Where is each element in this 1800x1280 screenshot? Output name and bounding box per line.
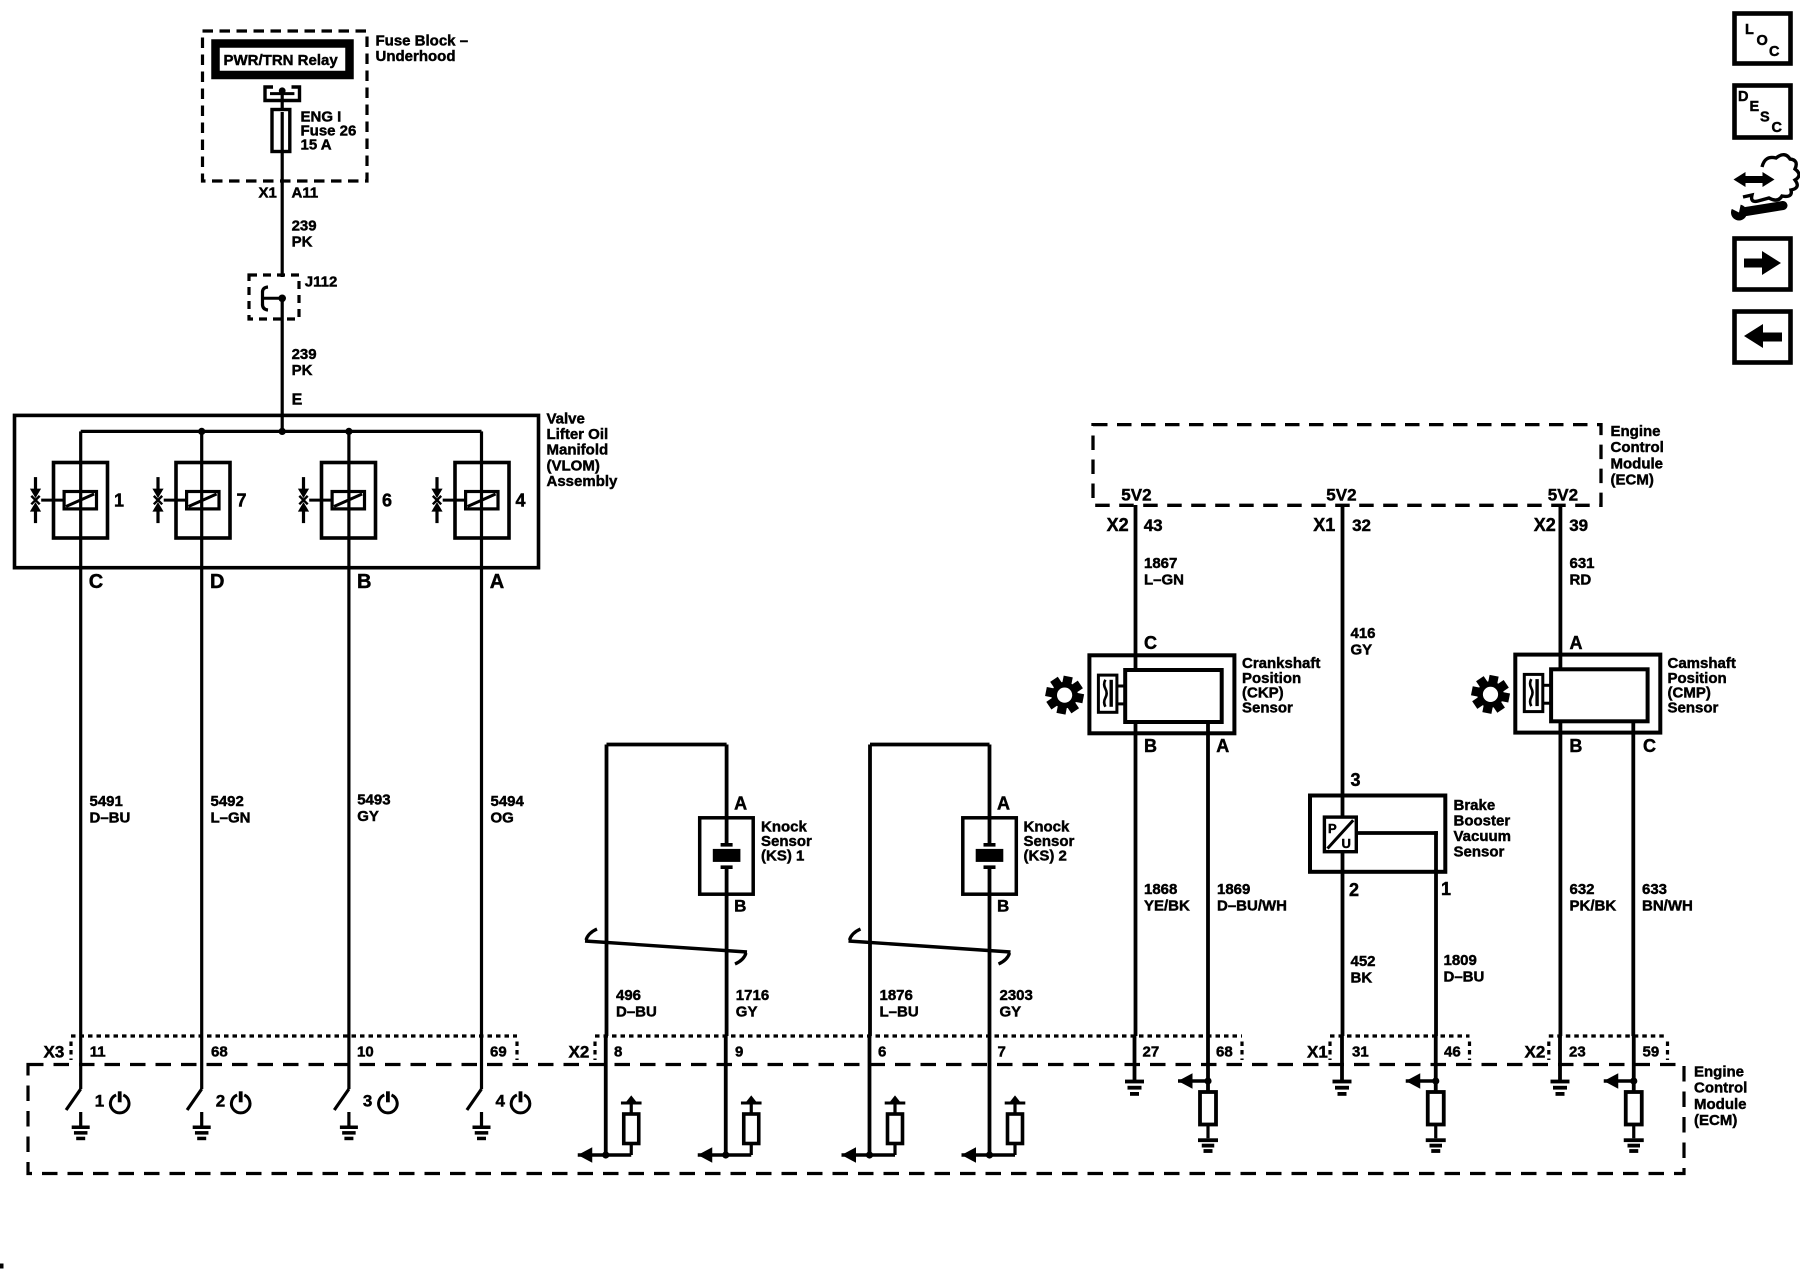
PWR/TRN Relay box xyxy=(216,44,350,76)
Crankshaft Position CKP Sensor xyxy=(1045,655,1234,733)
icon DESC button xyxy=(1735,86,1791,138)
svg-text:S: S xyxy=(1760,110,1770,126)
svg-text:X2: X2 xyxy=(1534,515,1556,535)
icon forward arrow button xyxy=(1735,239,1791,290)
svg-text:X3: X3 xyxy=(44,1043,65,1062)
wire 633 BN/WH (CMP C to ECM 59) xyxy=(1631,700,1635,1036)
svg-text:X2: X2 xyxy=(569,1043,590,1062)
twisted pair symbol KS1 xyxy=(585,941,747,952)
svg-text:L: L xyxy=(1745,22,1754,38)
svg-text:YE/BK: YE/BK xyxy=(1144,898,1190,915)
svg-text:A: A xyxy=(490,571,504,593)
ECM internal ground xyxy=(1125,1036,1144,1096)
svg-text:L–GN: L–GN xyxy=(1144,572,1184,589)
svg-text:1: 1 xyxy=(1441,879,1451,899)
svg-text:GY: GY xyxy=(357,808,379,825)
svg-text:A: A xyxy=(997,794,1010,814)
ECM input with signal arrow, resistor and ground xyxy=(1604,1036,1644,1153)
wire pin A into sensor xyxy=(988,745,992,844)
wire 632 PK/BK (CMP B to ECM 23) xyxy=(1559,670,1563,1036)
svg-text:Module: Module xyxy=(1611,455,1664,472)
icon LOC button xyxy=(1735,14,1791,64)
wire pin B out of sensor xyxy=(725,869,729,1036)
svg-text:5491: 5491 xyxy=(90,793,123,810)
svg-text:59: 59 xyxy=(1643,1044,1660,1061)
svg-text:46: 46 xyxy=(1444,1044,1461,1061)
svg-text:Sensor: Sensor xyxy=(1668,699,1719,716)
svg-text:GY: GY xyxy=(736,1004,758,1021)
ECM low-side driver 4 switch with ground and power icon xyxy=(467,1036,530,1140)
svg-text:7: 7 xyxy=(237,491,247,511)
relay output terminal symbol xyxy=(265,87,300,101)
svg-text:3: 3 xyxy=(1351,770,1361,790)
svg-text:X1: X1 xyxy=(1313,515,1335,535)
svg-text:31: 31 xyxy=(1352,1044,1369,1061)
wire to ECM (left leg) xyxy=(605,745,609,1037)
splice J112 dashed box xyxy=(249,275,299,319)
svg-text:15 A: 15 A xyxy=(301,136,332,153)
wire pin B out of sensor xyxy=(988,869,992,1036)
svg-text:1869: 1869 xyxy=(1217,881,1250,898)
svg-text:P: P xyxy=(1328,821,1337,836)
svg-text:(ECM): (ECM) xyxy=(1611,472,1654,489)
svg-text:PK/BK: PK/BK xyxy=(1570,898,1617,915)
VLOM solenoid valve 7 xyxy=(152,431,246,568)
svg-text:Underhood: Underhood xyxy=(376,48,456,65)
svg-text:X2: X2 xyxy=(1525,1043,1546,1062)
svg-text:B: B xyxy=(1144,736,1157,756)
svg-text:6: 6 xyxy=(878,1044,886,1061)
svg-text:A: A xyxy=(1570,633,1583,653)
svg-text:1876: 1876 xyxy=(880,987,913,1004)
ECM knock input pull-up resistor to 5V with signal arrow xyxy=(962,1036,1026,1163)
wire fuse to X1 A11 xyxy=(281,151,284,181)
svg-text:(VLOM): (VLOM) xyxy=(547,457,600,474)
icon schematic squiggle arrow with wrench xyxy=(1726,155,1799,221)
svg-text:BK: BK xyxy=(1351,970,1373,987)
wire 631 RD from ECM 39 to CMP xyxy=(1559,505,1563,670)
svg-text:2: 2 xyxy=(216,1092,225,1111)
wire E into bus xyxy=(281,415,284,431)
svg-text:A11: A11 xyxy=(292,185,319,202)
icon back arrow button xyxy=(1735,312,1791,363)
svg-text:D–BU/WH: D–BU/WH xyxy=(1217,898,1287,915)
wire 5491 D-BU xyxy=(79,568,82,1036)
svg-text:X2: X2 xyxy=(1107,515,1129,535)
svg-text:6: 6 xyxy=(382,491,392,511)
svg-text:B: B xyxy=(1569,736,1582,756)
svg-text:Booster: Booster xyxy=(1454,813,1511,830)
ECM internal ground xyxy=(1333,1036,1352,1096)
svg-text:X1: X1 xyxy=(1307,1043,1328,1062)
svg-text:68: 68 xyxy=(211,1044,228,1061)
svg-text:496: 496 xyxy=(616,987,641,1004)
wire 1867 L-GN from ECM 43 to CKP xyxy=(1134,505,1138,670)
fuse block underhood dashed box xyxy=(203,31,368,181)
svg-text:23: 23 xyxy=(1569,1044,1586,1061)
svg-text:D–BU: D–BU xyxy=(616,1004,657,1021)
ECM input with signal arrow, resistor and ground xyxy=(1178,1036,1218,1153)
svg-text:5494: 5494 xyxy=(491,793,525,810)
svg-text:PK: PK xyxy=(292,362,313,379)
svg-text:632: 632 xyxy=(1570,881,1595,898)
ECM connector dotted lines xyxy=(71,1034,517,1037)
wire 1869 D-BU/WH (CKP A to ECM 68) xyxy=(1206,700,1210,1036)
wire 1809 D-BU (pin1 to ECM 46) xyxy=(1434,872,1438,1036)
svg-text:633: 633 xyxy=(1642,881,1667,898)
svg-text:27: 27 xyxy=(1143,1044,1160,1061)
knock sensor KS 1 loop top link xyxy=(607,743,727,747)
svg-text:69: 69 xyxy=(490,1044,507,1061)
wire 239 PK lower segment xyxy=(281,298,284,415)
svg-text:2303: 2303 xyxy=(1000,987,1033,1004)
svg-text:1809: 1809 xyxy=(1444,952,1477,969)
wire 5492 L-GN xyxy=(200,568,203,1036)
svg-text:Module: Module xyxy=(1694,1096,1747,1113)
VLOM internal supply bus wire xyxy=(81,430,482,433)
svg-text:B: B xyxy=(357,571,371,593)
brake sensor output link to pin 1 xyxy=(1356,831,1438,835)
svg-text:Lifter Oil: Lifter Oil xyxy=(547,426,609,443)
svg-text:Valve: Valve xyxy=(547,411,585,428)
svg-text:1716: 1716 xyxy=(736,987,769,1004)
svg-text:C: C xyxy=(89,571,103,593)
svg-text:L–BU: L–BU xyxy=(880,1004,919,1021)
svg-text:C: C xyxy=(1769,44,1780,60)
svg-text:J112: J112 xyxy=(305,274,338,291)
svg-text:68: 68 xyxy=(1216,1044,1233,1061)
Engine Control Module ECM dashed box (bottom) xyxy=(28,1065,1684,1174)
knock sensor KS 2 box xyxy=(963,818,1017,894)
twisted pair symbol KS2 xyxy=(849,941,1011,952)
svg-text:B: B xyxy=(997,897,1009,916)
svg-text:D: D xyxy=(210,571,224,593)
svg-text:B: B xyxy=(734,897,746,916)
piezo element xyxy=(721,843,733,847)
svg-text:PK: PK xyxy=(292,233,313,250)
svg-text:2: 2 xyxy=(1349,880,1359,900)
svg-text:1: 1 xyxy=(95,1092,104,1111)
svg-text:Control: Control xyxy=(1611,439,1664,456)
svg-text:L–GN: L–GN xyxy=(211,810,251,827)
page artifact dot bottom-left xyxy=(0,1264,4,1269)
svg-text:A: A xyxy=(734,794,747,814)
wire relay to fuse xyxy=(281,94,284,109)
svg-text:C: C xyxy=(1144,633,1157,653)
svg-text:9: 9 xyxy=(735,1044,743,1061)
wire 239 PK upper segment xyxy=(281,181,284,277)
svg-text:(ECM): (ECM) xyxy=(1694,1112,1737,1129)
svg-text:Manifold: Manifold xyxy=(547,442,609,459)
wire pin A into sensor xyxy=(725,745,729,844)
svg-text:O: O xyxy=(1757,33,1768,49)
Brake Booster Vacuum Sensor box xyxy=(1310,796,1445,872)
svg-text:1868: 1868 xyxy=(1144,881,1177,898)
Valve Lifter Oil Manifold VLOM assembly box xyxy=(15,415,539,567)
ECM input with signal arrow, resistor and ground xyxy=(1406,1036,1446,1153)
svg-text:5492: 5492 xyxy=(211,793,244,810)
fuse ENG I Fuse 26 15A xyxy=(272,110,290,152)
ECM low-side driver 1 switch with ground and power icon xyxy=(66,1036,129,1140)
splice J112 symbol xyxy=(262,287,286,310)
svg-text:39: 39 xyxy=(1569,516,1588,535)
svg-text:PWR/TRN Relay: PWR/TRN Relay xyxy=(224,52,339,69)
svg-text:452: 452 xyxy=(1351,953,1376,970)
svg-text:5V2: 5V2 xyxy=(1326,486,1356,505)
knock sensor KS 2 loop top link xyxy=(870,743,990,747)
svg-text:Vacuum: Vacuum xyxy=(1454,828,1512,845)
svg-text:Sensor: Sensor xyxy=(1454,844,1505,861)
svg-text:10: 10 xyxy=(357,1044,374,1061)
VLOM solenoid valve 1 xyxy=(30,431,124,568)
svg-text:U: U xyxy=(1342,836,1351,851)
svg-text:D: D xyxy=(1738,89,1748,105)
svg-text:5V2: 5V2 xyxy=(1121,486,1151,505)
ECM knock input pull-up resistor to 5V with signal arrow xyxy=(578,1036,642,1163)
VLOM solenoid valve 6 xyxy=(298,431,392,568)
svg-text:4: 4 xyxy=(496,1092,506,1111)
Engine Control Module ECM dashed box (top) xyxy=(1093,425,1601,506)
svg-text:1: 1 xyxy=(114,491,124,511)
Camshaft Position CMP Sensor xyxy=(1471,655,1660,733)
svg-text:OG: OG xyxy=(491,810,514,827)
svg-text:239: 239 xyxy=(292,218,317,235)
VLOM solenoid valve 4 xyxy=(431,431,525,568)
knock sensor KS 1 box xyxy=(700,818,754,894)
wire 416 GY from ECM 32 to brake sensor xyxy=(1341,505,1345,817)
svg-text:Assembly: Assembly xyxy=(547,473,619,490)
svg-text:BN/WH: BN/WH xyxy=(1642,898,1693,915)
svg-text:32: 32 xyxy=(1352,516,1371,535)
svg-text:D–BU: D–BU xyxy=(90,810,131,827)
ECM knock input pull-up resistor to 5V with signal arrow xyxy=(698,1036,762,1163)
svg-text:8: 8 xyxy=(614,1044,622,1061)
svg-text:5V2: 5V2 xyxy=(1548,486,1578,505)
svg-text:C: C xyxy=(1772,120,1783,136)
svg-text:11: 11 xyxy=(90,1044,106,1061)
ECM internal ground xyxy=(1551,1036,1570,1096)
piezo element xyxy=(984,843,996,847)
svg-text:GY: GY xyxy=(1351,642,1373,659)
ECM knock input pull-up resistor to 5V with signal arrow xyxy=(842,1036,906,1163)
wire 5494 OG xyxy=(480,568,483,1036)
wire 452 BK (pin2 to ECM 31) xyxy=(1341,852,1345,1036)
svg-text:X1: X1 xyxy=(259,185,277,202)
svg-text:(KS) 2: (KS) 2 xyxy=(1024,848,1067,865)
connector separator dotted verticals xyxy=(69,1042,72,1061)
svg-text:C: C xyxy=(1643,736,1656,756)
svg-text:631: 631 xyxy=(1570,555,1595,572)
svg-text:4: 4 xyxy=(516,491,526,511)
svg-text:E: E xyxy=(1750,99,1760,115)
ECM low-side driver 3 switch with ground and power icon xyxy=(334,1036,397,1140)
svg-text:43: 43 xyxy=(1144,516,1163,535)
svg-text:5493: 5493 xyxy=(357,792,390,809)
svg-text:A: A xyxy=(1216,736,1229,756)
svg-text:RD: RD xyxy=(1570,572,1592,589)
svg-text:416: 416 xyxy=(1351,625,1376,642)
svg-text:Control: Control xyxy=(1694,1080,1747,1097)
svg-text:E: E xyxy=(292,392,303,409)
svg-text:1867: 1867 xyxy=(1144,555,1177,572)
svg-text:7: 7 xyxy=(998,1044,1006,1061)
svg-text:D–BU: D–BU xyxy=(1444,969,1485,986)
ECM low-side driver 2 switch with ground and power icon xyxy=(187,1036,250,1140)
svg-text:Fuse Block –: Fuse Block – xyxy=(376,33,469,50)
svg-text:Brake: Brake xyxy=(1454,797,1496,814)
svg-text:Sensor: Sensor xyxy=(1242,699,1293,716)
svg-text:Engine: Engine xyxy=(1611,423,1661,440)
svg-text:3: 3 xyxy=(363,1092,372,1111)
svg-text:239: 239 xyxy=(292,346,317,363)
wire 1868 YE/BK (CKP B to ECM 27) xyxy=(1134,670,1138,1036)
wire 5493 GY xyxy=(347,568,350,1036)
svg-text:Engine: Engine xyxy=(1694,1064,1744,1081)
svg-text:(KS) 1: (KS) 1 xyxy=(761,848,804,865)
svg-text:GY: GY xyxy=(1000,1004,1022,1021)
junction dots on bus xyxy=(198,428,205,435)
wire to ECM (left leg) xyxy=(868,745,872,1037)
